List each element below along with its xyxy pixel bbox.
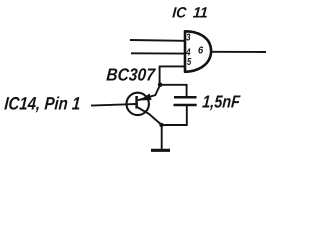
svg-text:BC307: BC307 <box>106 64 157 84</box>
transistor Q1 BC307 <box>127 85 162 125</box>
wire node A to capacitor top <box>160 85 187 97</box>
ground <box>151 149 170 152</box>
wire base input from IC14 <box>91 104 136 106</box>
capacitor C1 1,5nF <box>174 97 197 105</box>
emitter (to node A) with PNP arrow <box>138 85 160 100</box>
svg-text:3: 3 <box>186 31 190 43</box>
label IC 11 <box>172 5 209 22</box>
svg-text:6: 6 <box>198 45 203 57</box>
svg-text:1,5nF: 1,5nF <box>202 92 242 112</box>
collector (to node B) <box>137 107 162 125</box>
wire to ground <box>161 125 163 150</box>
op-amp gate U1 IC11 body <box>185 31 211 72</box>
wire pin4 input <box>131 52 184 54</box>
node A junction dot (emitter / pin5 / cap top) <box>158 82 163 87</box>
wire output pin6 <box>211 51 267 53</box>
svg-text:11: 11 <box>192 5 208 22</box>
wire pin5 input <box>160 66 184 84</box>
wire pin3 input <box>130 39 184 42</box>
wire capacitor bottom lead <box>162 105 187 125</box>
node B junction dot (collector / cap bottom / ground) <box>159 123 163 127</box>
svg-text:IC14, Pin 1: IC14, Pin 1 <box>4 94 81 114</box>
svg-text:5: 5 <box>187 56 191 68</box>
svg-text:IC: IC <box>172 5 188 22</box>
